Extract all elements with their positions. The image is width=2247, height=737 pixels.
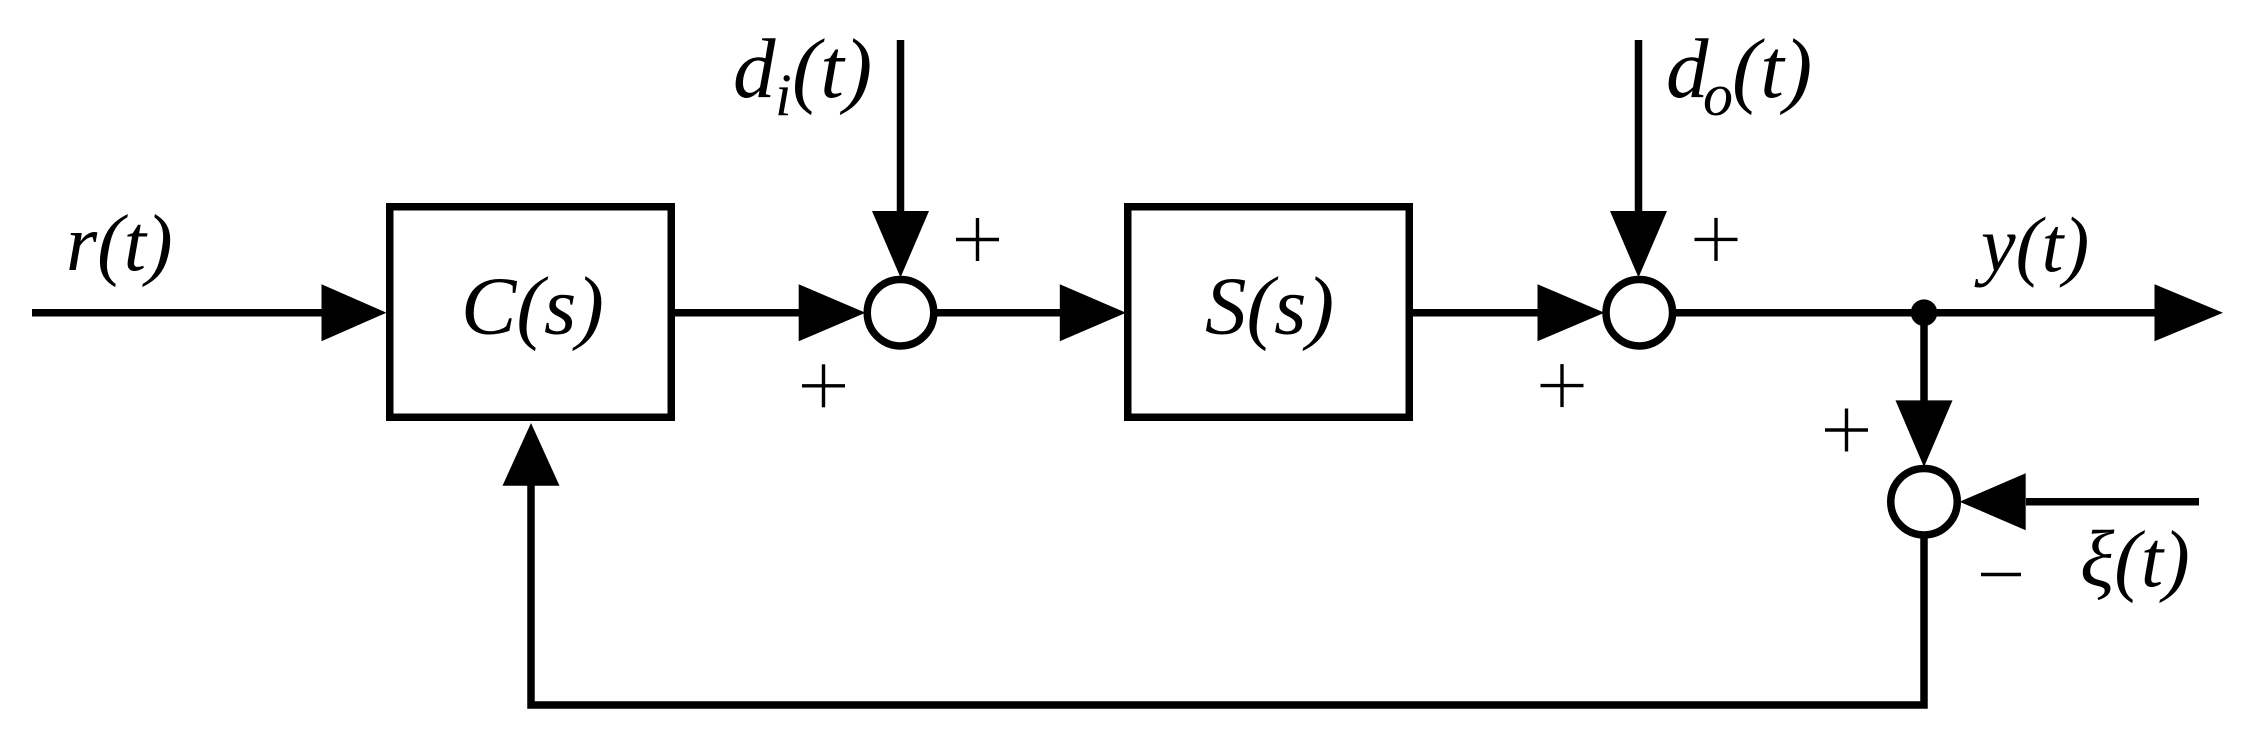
arrowhead into summer U3 top: [1896, 400, 1953, 467]
arrowhead into summer U1: [799, 284, 866, 341]
arrowhead feedback into C(s) bottom: [503, 423, 560, 486]
plus sign at U3 top input: [1825, 409, 1868, 452]
block C(s): [390, 207, 672, 418]
arrowhead into S(s): [1060, 284, 1126, 341]
plus sign at U2 left input: [1541, 364, 1584, 407]
node junction dot on y(t): [1911, 299, 1938, 326]
svg-text:o: o: [1703, 62, 1733, 128]
minus sign at U3 right input: [1981, 573, 2021, 576]
plus sign at U2 top input: [1695, 218, 1738, 261]
plus sign at U1 top input: [956, 218, 999, 261]
svg-text:d: d: [733, 22, 776, 116]
wire U1 to S(s): [935, 309, 1062, 317]
wire output y(t): [1674, 309, 2156, 317]
arrowhead d_o into summer U2: [1610, 211, 1667, 278]
arrowhead xi into summer U3: [1960, 473, 2026, 530]
wire input r(t): [32, 309, 324, 317]
wire node down to summer U3: [1920, 313, 1928, 402]
summing junction U1: [867, 279, 934, 346]
arrowhead d_i into summer U1: [872, 211, 929, 278]
arrowhead output y(t): [2155, 284, 2224, 341]
arrowhead into C(s): [322, 284, 387, 341]
svg-text:(t): (t): [1732, 22, 1812, 116]
svg-text:C(s): C(s): [461, 260, 604, 352]
svg-text:S(s): S(s): [1205, 260, 1334, 352]
summing junction U2: [1606, 279, 1673, 346]
wire S(s) output: [1411, 309, 1539, 317]
wire d_o(t) drop: [1635, 40, 1643, 214]
arrowhead into summer U2: [1538, 284, 1605, 341]
wire d_i(t) drop: [897, 40, 905, 214]
wire xi(t) input: [2026, 498, 2199, 506]
svg-text:i: i: [775, 62, 792, 128]
svg-text:r(t): r(t): [66, 200, 173, 288]
svg-text:(t): (t): [792, 22, 872, 116]
wire feedback loop: [531, 483, 1924, 705]
wire C(s) output: [673, 309, 800, 317]
svg-text:y(t): y(t): [1974, 201, 2089, 288]
summing junction U3: [1891, 468, 1958, 535]
svg-text:ξ(t): ξ(t): [2080, 516, 2190, 604]
block S(s): [1128, 207, 1410, 418]
plus sign at U1 left input: [802, 364, 845, 407]
